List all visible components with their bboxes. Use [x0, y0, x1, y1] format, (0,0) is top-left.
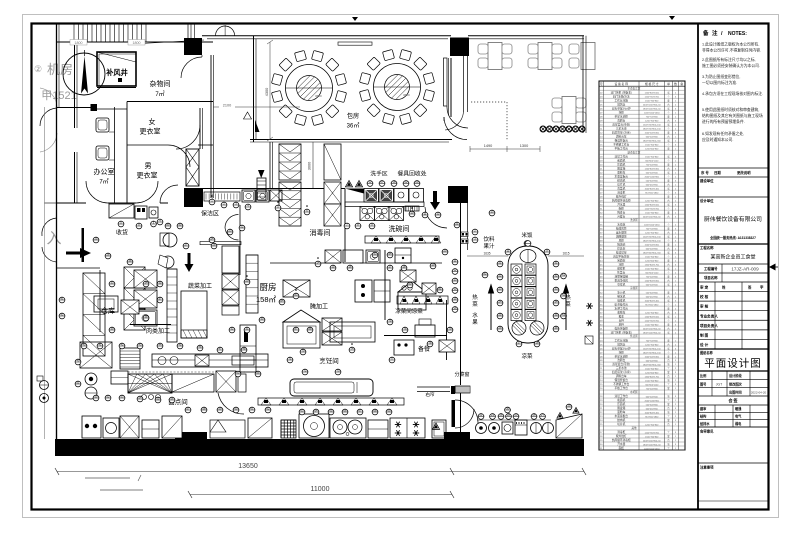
- office chairs/lockers: [96, 118, 109, 132]
- svg-text:售卖区: 售卖区: [630, 334, 638, 338]
- veg work table: [181, 291, 207, 338]
- top tiny marks: [352, 17, 358, 21]
- svg-text:四层货架 (冷库): 四层货架 (冷库): [612, 370, 631, 374]
- svg-text:建审: 建审: [699, 406, 706, 411]
- gray door arc (machine room): [40, 88, 57, 107]
- svg-text:隔油池: 隔油池: [617, 242, 625, 246]
- svg-text:台秤: 台秤: [619, 318, 625, 322]
- svg-text:制 图: 制 图: [700, 332, 709, 337]
- revision arrow marker on frame: [769, 264, 776, 271]
- svg-text:1500*760*800: 1500*760*800: [645, 436, 659, 438]
- svg-text:洗手区: 洗手区: [370, 170, 388, 178]
- svg-text:专业负责人: 专业负责人: [700, 313, 718, 318]
- column B (top right) black: [450, 38, 469, 57]
- stadium serving island: [508, 246, 548, 343]
- range modules: [360, 207, 375, 221]
- dining-room door leaf + arc: [444, 58, 448, 106]
- wall: changing top y101: [127, 101, 213, 103]
- svg-text:1200*600*800: 1200*600*800: [645, 372, 659, 374]
- dim line 11000: [190, 494, 452, 496]
- svg-text:消毒间: 消毒间: [310, 228, 331, 237]
- svg-text:17JZ-AR-009: 17JZ-AR-009: [731, 267, 759, 272]
- black down arrow near column C: [185, 253, 194, 272]
- exhaust grille symbol: [257, 178, 266, 200]
- dining table group 1: [478, 43, 512, 70]
- stair landing diagonal: [142, 40, 205, 44]
- svg-text:560*600*1100: 560*600*1100: [645, 160, 659, 162]
- svg-text:审 定: 审 定: [700, 285, 709, 290]
- svg-text:不锈钢工作台: 不锈钢工作台: [613, 142, 629, 146]
- dining right wall: [582, 36, 584, 133]
- svg-text:碗柜: 碗柜: [619, 446, 625, 450]
- island bottom hatched circles: [512, 321, 526, 335]
- tall cabinet column: [222, 246, 239, 273]
- svg-text:1200*800*1800: 1200*800*1800: [645, 168, 660, 170]
- svg-text:腌加工: 腌加工: [310, 303, 328, 311]
- svg-text:1000*800*1400: 1000*800*1400: [645, 412, 660, 414]
- hooded station (peaked) 2: [398, 281, 426, 292]
- svg-text:2100: 2100: [223, 104, 231, 108]
- symbol island left 3: [497, 299, 503, 306]
- signature grid: [698, 411, 769, 413]
- wall: below shaft y88: [97, 87, 136, 89]
- symbol washarea 09: [414, 180, 420, 187]
- symbol servwall 2: [452, 277, 458, 284]
- svg-text:洗刷台: 洗刷台: [617, 358, 625, 362]
- small machines row y296: [94, 296, 118, 312]
- svg-text:备 注 /: 备 注 /: [702, 29, 724, 37]
- svg-text:出图时间: 出图时间: [729, 390, 742, 395]
- svg-text:审 核: 审 核: [700, 304, 709, 309]
- vertical dim 3000: [312, 142, 314, 188]
- svg-text:男: 男: [145, 162, 152, 170]
- conveyor dotted belt: [204, 192, 240, 201]
- sterilizer cabinet column: [324, 144, 341, 180]
- svg-text:其他: 其他: [631, 426, 637, 430]
- pass window hatch: [452, 400, 456, 427]
- svg-text:910*650*1850: 910*650*1850: [645, 192, 659, 194]
- svg-text:5.使用此图纸时须核对和审查建筑,: 5.使用此图纸时须核对和审查建筑,: [702, 107, 759, 112]
- svg-text:2400*1150*800+50: 2400*1150*800+50: [643, 328, 662, 330]
- svg-text:一切以图内标注为准.: 一切以图内标注为准.: [702, 80, 737, 85]
- svg-text:设计单位: 设计单位: [700, 198, 714, 203]
- svg-text:1000*800*1400: 1000*800*1400: [645, 300, 660, 302]
- svg-text:热风循环消毒柜: 热风循环消毒柜: [612, 198, 631, 202]
- symbol island left 5: [497, 325, 503, 332]
- svg-text:消毒柜: 消毒柜: [617, 430, 625, 434]
- dim box 1800 right: [128, 40, 145, 46]
- svg-text:洗消区: 洗消区: [630, 218, 638, 222]
- wall below storage: [99, 270, 101, 332]
- svg-text:1800*900*800+550: 1800*900*800+550: [643, 140, 662, 142]
- door arc mid: [218, 393, 244, 414]
- svg-text:工作台冰箱: 工作台冰箱: [615, 98, 629, 102]
- svg-text:项目负责人: 项目负责人: [700, 323, 718, 328]
- svg-text:11000: 11000: [311, 486, 330, 493]
- upright cabinet: [432, 420, 446, 438]
- svg-text:肉类加工: 肉类加工: [146, 327, 170, 335]
- svg-text:米饭: 米饭: [521, 231, 533, 239]
- svg-text:6.如发现有任何矛盾之处,: 6.如发现有任何矛盾之处,: [702, 131, 744, 136]
- svg-text:750*500*800: 750*500*800: [646, 276, 659, 278]
- svg-text:②: ②: [34, 64, 42, 74]
- long rounded prep table: [290, 379, 373, 396]
- svg-text:会 签: 会 签: [728, 397, 738, 403]
- dough band dashed line: [128, 371, 245, 373]
- stairs flight 1 treads: [73, 24, 75, 42]
- sterile room left wall x270: [269, 142, 271, 188]
- dining-room inner wall x463-468: [463, 56, 465, 112]
- svg-text:蔬菜加工: 蔬菜加工: [188, 282, 212, 290]
- svg-text:比例: 比例: [700, 373, 707, 378]
- svg-text:机房: 机房: [47, 62, 73, 77]
- svg-text:弱电: 弱电: [735, 421, 742, 426]
- svg-text:平板工作台: 平板工作台: [615, 146, 629, 150]
- small dark pair icons x463: [461, 232, 468, 237]
- symbol island right 3: [553, 299, 559, 306]
- symbol island left 4: [497, 312, 503, 319]
- cold area shelf: [397, 296, 448, 304]
- wall: top of banquet room y38.5: [202, 35, 451, 37]
- svg-text:双头单尾小炒炉: 双头单尾小炒炉: [612, 346, 631, 350]
- svg-text:残食台: 残食台: [617, 210, 625, 214]
- svg-text:切片机: 切片机: [617, 422, 625, 426]
- svg-text:咖啡机: 咖啡机: [617, 298, 625, 302]
- svg-text:会审意见: 会审意见: [700, 429, 714, 434]
- svg-text:保温售饭台: 保温售饭台: [615, 138, 629, 142]
- proofer black bar: [240, 325, 256, 372]
- island food wells left column: [511, 264, 522, 275]
- symbol washarea 12: [367, 180, 373, 187]
- svg-text:1800*700*800+150: 1800*700*800+150: [643, 240, 662, 242]
- svg-text:NOTES:: NOTES:: [728, 31, 747, 37]
- double wok range: [330, 418, 366, 438]
- svg-text:保温售饭台: 保温售饭台: [615, 378, 629, 382]
- svg-text:电热蒸饭柜: 电热蒸饭柜: [615, 326, 629, 330]
- snowflake marks right margin: [586, 303, 593, 309]
- svg-text:2022-04-20: 2022-04-20: [751, 391, 767, 395]
- double door arcs serving: [455, 400, 478, 423]
- svg-text:1200*800*1800: 1200*800*1800: [645, 280, 660, 282]
- service small equipment: [476, 423, 487, 434]
- svg-text:910*650*1850: 910*650*1850: [645, 304, 659, 306]
- symbol servwall 4: [452, 296, 458, 303]
- svg-text:开水器: 开水器: [617, 442, 625, 446]
- wall: plan left outer: [56, 24, 58, 440]
- wash machines (dark): [364, 189, 379, 203]
- door arc: storage room: [181, 57, 202, 78]
- svg-text:750*500*800: 750*500*800: [646, 164, 659, 166]
- banquet door arc bottom right: [444, 117, 467, 140]
- symbol island right 4: [553, 312, 559, 319]
- svg-text:油网烟罩: 油网烟罩: [616, 234, 627, 238]
- svg-text:560*600*1100: 560*600*1100: [645, 272, 659, 274]
- symbol cashier 3: [151, 220, 157, 227]
- svg-text:冰沙机: 冰沙机: [617, 290, 625, 294]
- svg-text:1220*760*1950: 1220*760*1950: [645, 96, 660, 98]
- symbol island left 2: [497, 286, 503, 293]
- svg-text:运水烟罩: 运水烟罩: [616, 230, 627, 234]
- svg-text:1500*500*1800: 1500*500*1800: [645, 244, 660, 246]
- svg-text:1200*600*800: 1200*600*800: [645, 260, 659, 262]
- svg-text:1500*700*800+150: 1500*700*800+150: [643, 348, 662, 350]
- svg-text:1200*700*800: 1200*700*800: [645, 312, 659, 314]
- X-braced shaft: [186, 149, 199, 186]
- cooking X modules: [322, 318, 342, 331]
- wall: changing divider y145: [127, 144, 168, 146]
- wall: right of changing x211 upper: [210, 55, 212, 198]
- wall under stairs y42: [57, 41, 214, 43]
- svg-text:电气: 电气: [735, 414, 742, 419]
- titleblock divider: [698, 167, 769, 169]
- leader dots: [211, 195, 213, 197]
- cold fridge modules: [415, 325, 435, 337]
- svg-text:修改图次: 修改图次: [728, 381, 743, 386]
- svg-text:500*300*800: 500*300*800: [646, 180, 659, 182]
- wall: corridor y107: [57, 107, 96, 109]
- svg-text:更改说明: 更改说明: [737, 170, 751, 175]
- svg-text:1000*800*1400: 1000*800*1400: [645, 188, 660, 190]
- bottom wall black bar: [55, 439, 584, 456]
- hood shelf long: [258, 398, 404, 405]
- svg-text:1500*760*800: 1500*760*800: [645, 100, 659, 102]
- dough table fan hatch: [128, 374, 172, 393]
- dish rack tall 2 (chevron hatch): [279, 182, 301, 226]
- mixer machines left: [163, 233, 177, 247]
- title block column: [697, 24, 699, 510]
- svg-text:600*500*600: 600*500*600: [646, 172, 659, 174]
- svg-text:工程编号: 工程编号: [704, 266, 718, 271]
- svg-text:1500*700*800: 1500*700*800: [645, 268, 659, 270]
- big pot stove: [299, 414, 329, 438]
- dim box 1800 left: [70, 40, 87, 46]
- svg-text:四层平板货架: 四层平板货架: [613, 254, 629, 258]
- svg-text:1350*800*1750: 1350*800*1750: [645, 264, 660, 266]
- svg-text:紫外线灯: 紫外线灯: [616, 194, 627, 198]
- svg-text:三星水池: 三星水池: [616, 366, 627, 370]
- shaft 补风井 box: [97, 52, 136, 86]
- svg-text:木面案板台: 木面案板台: [615, 174, 629, 178]
- svg-text:给排水: 给排水: [700, 421, 710, 426]
- svg-text:600*500*600: 600*500*600: [646, 284, 659, 286]
- svg-text:600*500*800: 600*500*800: [646, 248, 659, 250]
- svg-text:号: 号: [600, 82, 603, 86]
- svg-text:结构图纸及其它有关图纸与施工现场: 结构图纸及其它有关图纸与施工现场: [702, 113, 763, 118]
- svg-text:3600: 3600: [315, 94, 322, 98]
- svg-text:4.承包方须在工程现场核对图内标注.: 4.承包方须在工程现场核对图内标注.: [702, 91, 763, 96]
- svg-text:水吧区: 水吧区: [630, 390, 638, 394]
- banquet round table 2: [359, 49, 434, 124]
- svg-text:910*650*1850: 910*650*1850: [645, 416, 659, 418]
- svg-text:冰柜: 冰柜: [619, 262, 625, 266]
- small gray dashes bottom left: [85, 477, 130, 479]
- svg-text:图纸名称: 图纸名称: [700, 350, 714, 355]
- svg-text:和面机: 和面机: [617, 158, 625, 162]
- svg-text:进行的所有预留预埋条件.: 进行的所有预留预埋条件.: [702, 119, 745, 124]
- svg-text:1800*900*800+550: 1800*900*800+550: [643, 364, 662, 366]
- dining table group 3 (clipped): [569, 43, 595, 70]
- svg-text:绞肉机: 绞肉机: [617, 178, 625, 182]
- scale/date table: [698, 378, 769, 380]
- symbol washarea 18: [391, 180, 397, 187]
- svg-text:工程名称: 工程名称: [700, 245, 714, 250]
- svg-text:158㎡: 158㎡: [256, 295, 277, 304]
- svg-text:560*600*1100: 560*600*1100: [645, 384, 659, 386]
- svg-text:水吧工作台: 水吧工作台: [615, 306, 629, 310]
- symbol cashier 2: [136, 222, 142, 229]
- svg-text:办公室: 办公室: [94, 167, 115, 176]
- svg-text:600*450*850: 600*450*850: [646, 408, 659, 410]
- svg-text:凉菜区: 凉菜区: [630, 286, 638, 290]
- wall x385 cold area: [384, 250, 386, 320]
- svg-text:推车: 推车: [619, 314, 625, 318]
- svg-text:结构: 结构: [700, 414, 707, 419]
- svg-text:注意事项: 注意事项: [700, 465, 714, 470]
- symbol cashier 1: [118, 220, 124, 227]
- svg-text:13650: 13650: [238, 463, 258, 470]
- svg-text:规 格 尺 寸: 规 格 尺 寸: [645, 82, 659, 86]
- svg-text:和面机: 和面机: [617, 398, 625, 402]
- symbol serviceline 28: [506, 413, 512, 420]
- svg-text:奶茶操作台: 奶茶操作台: [615, 302, 629, 306]
- dim 1635/1615: [467, 255, 508, 257]
- svg-text:1300: 1300: [520, 144, 528, 148]
- symbol island right 1: [553, 273, 559, 280]
- svg-text:全国统一服务热线: A131338327: 全国统一服务热线: A131338327: [709, 235, 756, 240]
- symbol washarea 07: [379, 180, 385, 187]
- svg-text:1200*700*800: 1200*700*800: [645, 344, 659, 346]
- symbol island left 0: [497, 260, 503, 267]
- meat counter row y354: [152, 354, 268, 367]
- svg-text:1800*900*800+550: 1800*900*800+550: [643, 252, 662, 254]
- wall x240: [239, 205, 241, 275]
- column A (top middle) black: [184, 38, 202, 55]
- svg-text:醒发箱: 醒发箱: [617, 406, 625, 410]
- svg-text:1500*500*1800: 1500*500*1800: [645, 356, 660, 358]
- svg-text:应及时通知本公司.: 应及时通知本公司.: [702, 137, 733, 142]
- svg-text:项目名称: 项目名称: [704, 275, 718, 280]
- slanted cart bottom right: [556, 414, 582, 438]
- svg-text:双星盆台(带架): 双星盆台(带架): [612, 122, 630, 126]
- svg-text:施工图必须经安装确认方为本公司.: 施工图必须经安装确认方为本公司.: [702, 63, 760, 68]
- svg-text:碗柜: 碗柜: [619, 206, 625, 210]
- svg-text:700*700*800: 700*700*800: [646, 116, 659, 118]
- svg-text:补风井: 补风井: [105, 68, 128, 77]
- svg-text:仓库: 仓库: [101, 306, 115, 315]
- svg-text:更衣室: 更衣室: [140, 127, 161, 136]
- wall: office right x127: [126, 102, 128, 204]
- svg-text:单星水池柜: 单星水池柜: [615, 114, 629, 118]
- svg-text:7㎡: 7㎡: [155, 90, 164, 98]
- svg-text:豆浆机: 豆浆机: [617, 282, 625, 286]
- hood wedge: [345, 189, 364, 194]
- long counter mid: [330, 322, 375, 342]
- svg-text:木面案板台: 木面案板台: [615, 414, 629, 418]
- double entry door arcs top: [215, 26, 225, 36]
- svg-text:双头单尾小炒炉: 双头单尾小炒炉: [612, 106, 631, 110]
- svg-text:签: 签: [747, 285, 752, 290]
- svg-text:收货: 收货: [116, 229, 128, 237]
- svg-text:1200*600*800: 1200*600*800: [645, 148, 659, 150]
- svg-text:1200*800*1600: 1200*800*1600: [645, 92, 660, 94]
- wall: dish room divider x345: [344, 189, 346, 263]
- svg-text:汤粥保温桶: 汤粥保温桶: [615, 274, 629, 278]
- svg-text:1220*760*1950: 1220*760*1950: [645, 208, 660, 210]
- connector line service: [477, 419, 551, 421]
- svg-text:2.此图纸所有标注尺寸均以之标,: 2.此图纸所有标注尺寸均以之标,: [702, 57, 756, 62]
- svg-text:平面设计图: 平面设计图: [704, 357, 762, 370]
- svg-text:包房: 包房: [347, 112, 359, 120]
- svg-text:序 号: 序 号: [700, 170, 709, 175]
- black equipment above bar: [175, 432, 207, 440]
- wash sinks plain: [394, 189, 409, 203]
- svg-text:炊具架: 炊具架: [617, 246, 625, 250]
- svg-text:风柜: 风柜: [619, 238, 625, 242]
- cold room walls: [384, 335, 447, 337]
- svg-text:女: 女: [149, 117, 156, 126]
- bottom-left machines row: [82, 416, 101, 438]
- svg-text:菜: 菜: [472, 300, 478, 308]
- wall: corridor bottom y203: [57, 202, 87, 204]
- door arcs: left wall: [40, 108, 57, 126]
- symbol serviceline 23: [513, 413, 519, 420]
- wall: banquet bottom y140: [250, 139, 452, 141]
- serving wall x460: [460, 203, 462, 385]
- svg-text:500*300*800: 500*300*800: [646, 404, 659, 406]
- svg-text:污碟台: 污碟台: [617, 214, 625, 218]
- svg-text:绞肉机: 绞肉机: [617, 418, 625, 422]
- svg-text:1200*800*1600: 1200*800*1600: [645, 204, 660, 206]
- svg-text:调料台车: 调料台车: [616, 374, 627, 378]
- svg-text:2000*1000*800: 2000*1000*800: [645, 176, 660, 178]
- svg-text:热风循环消毒柜: 热风循环消毒柜: [612, 438, 631, 442]
- svg-text:1500*500*1800: 1500*500*1800: [645, 132, 660, 134]
- symbol serviceline 24: [490, 413, 496, 420]
- cleaning sinks: [242, 190, 255, 202]
- svg-text:双层工作台: 双层工作台: [615, 154, 629, 158]
- dough band circles: [142, 395, 147, 400]
- svg-text:调料台车: 调料台车: [616, 134, 627, 138]
- symbol island right 0: [553, 260, 559, 267]
- svg-text:1500*700*800+150: 1500*700*800+150: [643, 236, 662, 238]
- island food wells right column: [525, 264, 536, 275]
- svg-text:1350*800*1750: 1350*800*1750: [645, 376, 660, 378]
- svg-text:1000*1000*1650: 1000*1000*1650: [644, 224, 660, 226]
- vertical dim 4300: [269, 42, 271, 140]
- svg-text:1500*700*800: 1500*700*800: [645, 144, 659, 146]
- stair wall verticals near column: [187, 24, 189, 41]
- svg-text:水: 水: [472, 311, 478, 319]
- svg-text:设 计: 设 计: [700, 342, 709, 347]
- svg-text:4300: 4300: [265, 88, 269, 96]
- svg-text:分菜窗: 分菜窗: [454, 371, 469, 378]
- svg-text:2000*1000*800: 2000*1000*800: [645, 400, 660, 402]
- svg-text:面粉车: 面粉车: [617, 170, 625, 174]
- svg-text:入: 入: [46, 230, 61, 247]
- svg-text:凉菜间凉菜: 凉菜间凉菜: [395, 307, 423, 315]
- cashier counter: [109, 204, 134, 218]
- symbol serviceline 21: [478, 413, 484, 420]
- svg-text:洗菜机: 洗菜机: [617, 186, 625, 190]
- cleaning zone wall y188: [203, 188, 345, 190]
- svg-text:压面机: 压面机: [617, 402, 625, 406]
- narrow cabinet: [167, 269, 177, 342]
- svg-text:热: 热: [472, 293, 478, 301]
- svg-text:鼓风灶: 鼓风灶: [617, 342, 625, 346]
- svg-text:双星盆台(带架): 双星盆台(带架): [612, 362, 630, 366]
- side counter with hatch: [405, 206, 419, 211]
- wall block at corridor: [91, 104, 98, 111]
